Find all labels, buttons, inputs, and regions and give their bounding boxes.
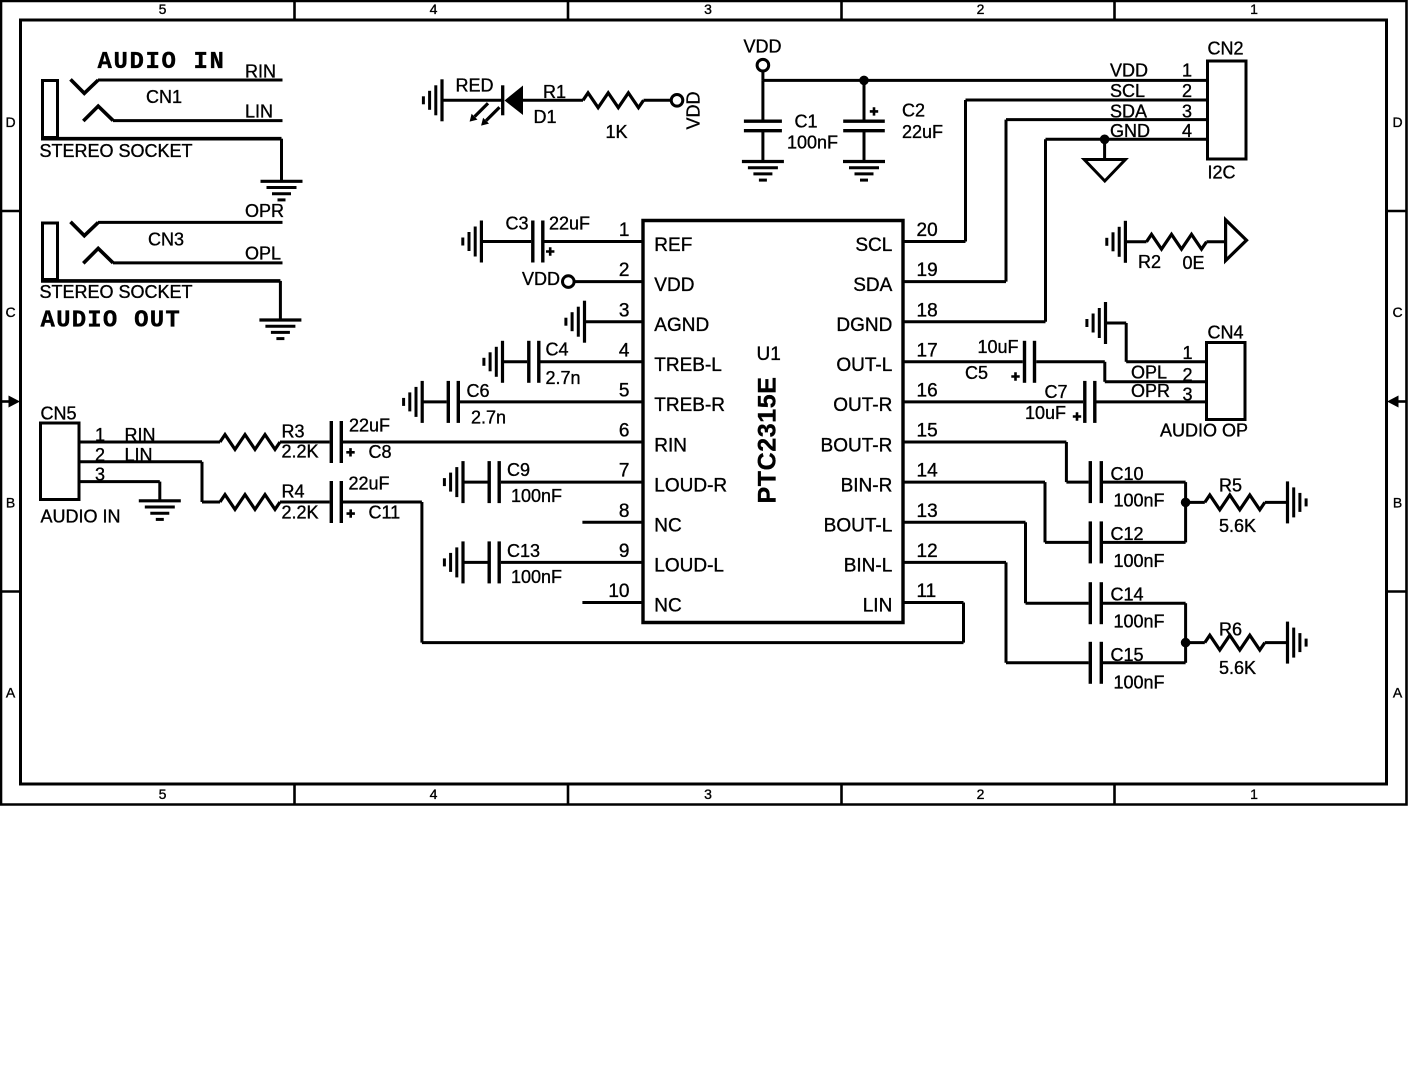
svg-text:TREB-R: TREB-R — [654, 395, 725, 416]
svg-text:LOUD-R: LOUD-R — [654, 475, 727, 496]
svg-text:C10: C10 — [1111, 464, 1144, 484]
svg-text:OPR: OPR — [1131, 381, 1170, 401]
svg-text:C15: C15 — [1111, 645, 1144, 665]
svg-text:B: B — [6, 494, 15, 510]
svg-text:C9: C9 — [507, 460, 530, 480]
svg-text:6: 6 — [619, 421, 630, 442]
svg-text:C: C — [1392, 304, 1402, 320]
svg-text:SCL: SCL — [1110, 81, 1145, 101]
svg-text:3: 3 — [1182, 101, 1192, 121]
svg-text:1K: 1K — [606, 122, 628, 142]
svg-text:19: 19 — [917, 260, 938, 281]
svg-text:2: 2 — [1182, 81, 1192, 101]
svg-text:TREB-L: TREB-L — [654, 355, 722, 376]
svg-text:NC: NC — [654, 596, 681, 617]
svg-text:1: 1 — [1182, 343, 1192, 363]
svg-text:I2C: I2C — [1208, 163, 1236, 183]
svg-text:2.7n: 2.7n — [471, 408, 506, 428]
svg-text:BOUT-R: BOUT-R — [821, 435, 893, 456]
svg-text:C7: C7 — [1045, 382, 1068, 402]
svg-text:C1: C1 — [795, 111, 818, 131]
svg-text:VDD: VDD — [654, 275, 694, 296]
svg-text:14: 14 — [917, 461, 939, 482]
svg-text:C5: C5 — [965, 363, 988, 383]
svg-text:7: 7 — [619, 461, 630, 482]
svg-text:CN4: CN4 — [1208, 323, 1244, 343]
svg-text:17: 17 — [917, 340, 938, 361]
svg-text:PTC2315E: PTC2315E — [754, 376, 782, 503]
svg-text:DGND: DGND — [836, 315, 892, 336]
svg-text:CN1: CN1 — [146, 87, 182, 107]
svg-text:100nF: 100nF — [1114, 551, 1165, 571]
svg-text:R2: R2 — [1138, 252, 1161, 272]
svg-text:5: 5 — [159, 1, 167, 17]
svg-text:3: 3 — [619, 300, 630, 321]
svg-text:A: A — [1393, 685, 1403, 701]
svg-text:3: 3 — [704, 786, 712, 802]
svg-text:0E: 0E — [1183, 253, 1205, 273]
svg-text:100nF: 100nF — [511, 486, 562, 506]
svg-text:AUDIO IN: AUDIO IN — [98, 49, 226, 76]
svg-text:100nF: 100nF — [787, 133, 838, 153]
svg-text:AGND: AGND — [654, 315, 709, 336]
svg-text:22uF: 22uF — [349, 415, 390, 435]
svg-text:CN5: CN5 — [41, 404, 77, 424]
svg-text:5.6K: 5.6K — [1219, 658, 1256, 678]
svg-text:R3: R3 — [282, 422, 305, 442]
svg-text:1: 1 — [95, 425, 105, 445]
svg-text:10uF: 10uF — [978, 337, 1019, 357]
svg-text:1: 1 — [1182, 61, 1192, 81]
svg-text:RED: RED — [456, 75, 494, 95]
svg-text:CN2: CN2 — [1208, 38, 1244, 58]
svg-text:GND: GND — [1110, 121, 1150, 141]
svg-text:LOUD-L: LOUD-L — [654, 556, 724, 577]
svg-text:4: 4 — [430, 1, 438, 17]
svg-text:10uF: 10uF — [1025, 403, 1066, 423]
svg-text:C8: C8 — [369, 442, 392, 462]
svg-text:4: 4 — [1182, 121, 1192, 141]
svg-text:2.2K: 2.2K — [282, 503, 319, 523]
svg-text:STEREO SOCKET: STEREO SOCKET — [40, 141, 193, 161]
svg-text:AUDIO OP: AUDIO OP — [1160, 421, 1248, 441]
svg-text:1: 1 — [1250, 786, 1258, 802]
svg-text:D: D — [5, 114, 15, 130]
svg-text:NC: NC — [654, 516, 681, 537]
svg-text:C13: C13 — [507, 541, 540, 561]
svg-text:2: 2 — [95, 445, 105, 465]
svg-text:OUT-L: OUT-L — [836, 355, 892, 376]
svg-text:C: C — [5, 304, 15, 320]
svg-text:R1: R1 — [543, 82, 566, 102]
svg-text:1: 1 — [619, 220, 630, 241]
svg-text:3: 3 — [1182, 385, 1192, 405]
svg-text:2: 2 — [977, 1, 985, 17]
svg-text:100nF: 100nF — [511, 567, 562, 587]
svg-text:OPR: OPR — [245, 201, 284, 221]
svg-text:3: 3 — [95, 465, 105, 485]
svg-text:RIN: RIN — [245, 62, 276, 82]
svg-text:13: 13 — [917, 501, 938, 522]
svg-text:A: A — [6, 685, 16, 701]
svg-text:OPL: OPL — [245, 244, 281, 264]
svg-text:2.7n: 2.7n — [546, 368, 581, 388]
svg-text:10: 10 — [608, 581, 629, 602]
svg-text:4: 4 — [430, 786, 438, 802]
svg-text:LIN: LIN — [863, 596, 893, 617]
svg-text:22uF: 22uF — [549, 214, 590, 234]
svg-text:D: D — [1392, 114, 1402, 130]
svg-text:4: 4 — [619, 340, 630, 361]
svg-text:U1: U1 — [757, 344, 781, 365]
svg-text:2: 2 — [619, 260, 630, 281]
svg-text:15: 15 — [917, 421, 938, 442]
svg-text:VDD: VDD — [684, 91, 704, 129]
svg-text:100nF: 100nF — [1114, 672, 1165, 692]
svg-text:VDD: VDD — [1110, 61, 1148, 81]
svg-text:20: 20 — [917, 220, 938, 241]
svg-text:C14: C14 — [1111, 584, 1144, 604]
svg-text:5: 5 — [159, 786, 167, 802]
svg-text:RIN: RIN — [654, 435, 687, 456]
svg-text:STEREO SOCKET: STEREO SOCKET — [40, 282, 193, 302]
svg-text:2: 2 — [977, 786, 985, 802]
svg-text:8: 8 — [619, 501, 630, 522]
svg-text:SDA: SDA — [853, 275, 892, 296]
svg-text:9: 9 — [619, 541, 630, 562]
svg-text:R6: R6 — [1219, 619, 1242, 639]
svg-text:VDD: VDD — [522, 269, 560, 289]
svg-text:16: 16 — [917, 381, 938, 402]
svg-text:C4: C4 — [546, 339, 569, 359]
svg-text:C2: C2 — [902, 101, 925, 121]
svg-text:5.6K: 5.6K — [1219, 516, 1256, 536]
svg-text:1: 1 — [1250, 1, 1258, 17]
svg-text:LIN: LIN — [125, 445, 153, 465]
svg-text:OUT-R: OUT-R — [833, 395, 892, 416]
svg-text:BOUT-L: BOUT-L — [824, 516, 893, 537]
svg-text:AUDIO OUT: AUDIO OUT — [41, 308, 181, 335]
svg-text:D1: D1 — [534, 107, 557, 127]
svg-text:C12: C12 — [1111, 524, 1144, 544]
svg-text:11: 11 — [917, 581, 937, 602]
svg-text:BIN-R: BIN-R — [841, 475, 893, 496]
svg-text:C3: C3 — [506, 214, 529, 234]
svg-text:22uF: 22uF — [349, 474, 390, 494]
svg-text:SDA: SDA — [1110, 101, 1147, 121]
svg-text:SCL: SCL — [855, 235, 892, 256]
svg-text:B: B — [1393, 494, 1402, 510]
svg-text:22uF: 22uF — [902, 122, 943, 142]
svg-text:CN3: CN3 — [148, 230, 184, 250]
svg-text:2.2K: 2.2K — [282, 441, 319, 461]
svg-text:BIN-L: BIN-L — [844, 556, 893, 577]
svg-text:100nF: 100nF — [1114, 491, 1165, 511]
svg-text:3: 3 — [704, 1, 712, 17]
svg-text:12: 12 — [917, 541, 938, 562]
svg-text:C6: C6 — [467, 381, 490, 401]
svg-text:OPL: OPL — [1131, 362, 1167, 382]
svg-text:RIN: RIN — [125, 425, 156, 445]
svg-text:AUDIO IN: AUDIO IN — [41, 507, 121, 527]
svg-text:REF: REF — [654, 235, 692, 256]
svg-text:R5: R5 — [1219, 476, 1242, 496]
svg-text:VDD: VDD — [744, 37, 782, 57]
svg-text:100nF: 100nF — [1114, 612, 1165, 632]
svg-text:LIN: LIN — [245, 102, 273, 122]
svg-text:R4: R4 — [282, 481, 305, 501]
svg-text:C11: C11 — [369, 503, 401, 523]
svg-text:18: 18 — [917, 300, 938, 321]
svg-text:5: 5 — [619, 381, 630, 402]
svg-text:2: 2 — [1182, 365, 1192, 385]
